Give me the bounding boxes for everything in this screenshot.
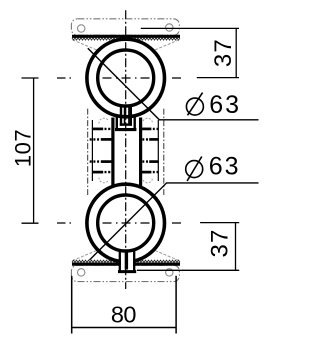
svg-text:37: 37 bbox=[207, 228, 234, 257]
svg-text:80: 80 bbox=[111, 302, 136, 328]
svg-text:63: 63 bbox=[209, 91, 241, 119]
svg-text:107: 107 bbox=[11, 129, 36, 167]
svg-text:37: 37 bbox=[210, 38, 237, 67]
svg-text:63: 63 bbox=[209, 153, 241, 181]
